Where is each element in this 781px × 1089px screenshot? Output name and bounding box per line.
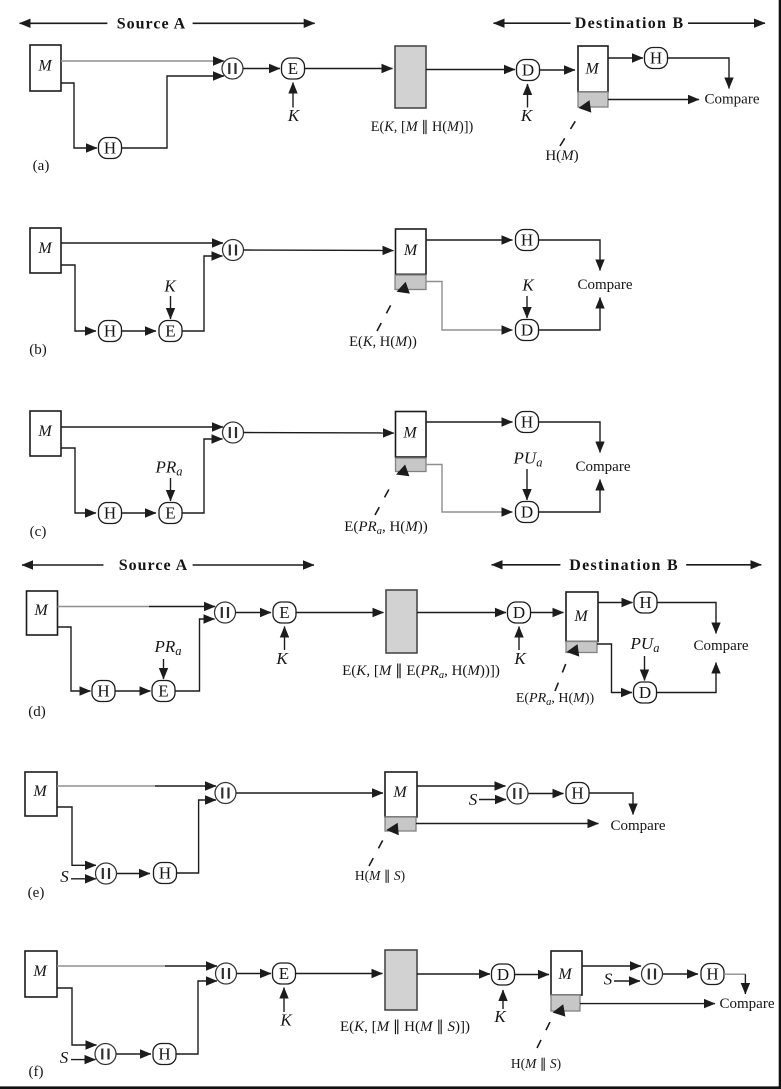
message box M source (e) bbox=[25, 772, 57, 816]
wire concat to E (a) bbox=[243, 68, 280, 70]
svg-text:M: M bbox=[37, 58, 53, 75]
concatenation node || (d) bbox=[215, 602, 236, 623]
hash strip of received block (f) bbox=[551, 995, 580, 1011]
wire concat dest to H (f) bbox=[663, 973, 699, 975]
svg-text:S: S bbox=[60, 867, 69, 886]
wire H to concat (a) bbox=[122, 76, 225, 148]
decrypt function D (a) bbox=[517, 60, 540, 81]
svg-text:E(PRa​, H(M)): E(PRa​, H(M)) bbox=[344, 519, 428, 537]
encrypt function E outer (d) bbox=[273, 602, 296, 623]
svg-text:H: H bbox=[104, 139, 116, 158]
svg-text:Destination B: Destination B bbox=[575, 15, 685, 32]
wire M to concat lower (f) bbox=[57, 988, 97, 1045]
wire D to received M (a) bbox=[539, 69, 575, 71]
svg-text:M: M bbox=[557, 966, 573, 983]
wire M to concat black part (f) bbox=[165, 965, 217, 967]
wire E to ciphertext block (a) bbox=[305, 68, 393, 70]
wire ciphertext to D (d) bbox=[417, 612, 506, 614]
wire M to concat top (b) bbox=[61, 242, 223, 244]
concatenation node || (a) bbox=[222, 58, 243, 79]
svg-text:K: K bbox=[493, 1007, 507, 1026]
wire K to E (a) bbox=[292, 83, 294, 108]
hash function H dest (c) bbox=[516, 412, 539, 433]
header arrow Source A (a) bbox=[20, 15, 315, 32]
hash function H dest (f) bbox=[701, 964, 724, 985]
svg-text:PRa: PRa bbox=[154, 458, 182, 479]
svg-text:H: H bbox=[159, 864, 171, 883]
svg-text:H: H bbox=[706, 965, 718, 984]
wire K to E (b) bbox=[170, 296, 172, 319]
concatenation node || (f) bbox=[216, 963, 237, 984]
svg-text:D: D bbox=[497, 965, 509, 984]
svg-text:E: E bbox=[288, 59, 298, 78]
decrypt function D (b) bbox=[516, 320, 539, 341]
header arrow Destination B (d) bbox=[492, 557, 762, 574]
svg-text:S: S bbox=[604, 970, 613, 989]
received message box M (a) bbox=[578, 46, 608, 92]
wire E to concat (c) bbox=[182, 439, 223, 513]
svg-text:D: D bbox=[639, 683, 651, 702]
svg-text:Source A: Source A bbox=[117, 15, 186, 32]
svg-text:Destination B: Destination B bbox=[569, 557, 679, 574]
wire K to D (f) bbox=[502, 990, 504, 1009]
received message box M (b) bbox=[396, 229, 427, 274]
leader E(K,H(M)) to strip (b) bbox=[377, 282, 410, 331]
concatenation node || (b) bbox=[223, 240, 244, 261]
wire D to compare (b) bbox=[539, 298, 601, 331]
svg-text:M: M bbox=[37, 240, 53, 257]
concatenation node || dest (f) bbox=[642, 964, 663, 985]
svg-text:(f): (f) bbox=[29, 1064, 44, 1080]
wire concat to received M (b) bbox=[244, 249, 394, 252]
wire concat dest to H (e) bbox=[529, 793, 564, 795]
wire E to ciphertext block (f) bbox=[296, 973, 383, 975]
hash function H (d) bbox=[92, 681, 115, 702]
wire H to E (c) bbox=[122, 512, 157, 514]
concatenation node || (e) bbox=[215, 783, 236, 804]
decrypt function D inner (d) bbox=[634, 682, 657, 703]
concatenation node || dest (e) bbox=[507, 783, 528, 804]
received message box M (d) bbox=[566, 592, 598, 642]
encrypt function E (b) bbox=[159, 321, 182, 342]
wire H to compare (e) bbox=[589, 793, 633, 815]
message box M source (a) bbox=[30, 45, 61, 91]
svg-text:H: H bbox=[158, 1045, 170, 1064]
wire H to E (d) bbox=[115, 690, 151, 692]
wire S to concat lower (f) bbox=[71, 1059, 96, 1061]
wire K to D (a) bbox=[527, 84, 529, 108]
hash function H (e) bbox=[154, 863, 177, 884]
svg-text:D: D bbox=[522, 61, 534, 80]
svg-text:Compare: Compare bbox=[720, 996, 775, 1012]
leader H(M||S) to strip (f) bbox=[537, 1004, 565, 1048]
hash function H (a) bbox=[99, 138, 122, 159]
wire M to concat black part (e) bbox=[155, 785, 216, 787]
wire strip to D (c) bbox=[426, 465, 513, 513]
wire E to ciphertext block (d) bbox=[296, 612, 384, 614]
message box M source (c) bbox=[30, 411, 61, 456]
header arrow Destination B (a) bbox=[494, 15, 766, 32]
svg-text:M: M bbox=[403, 242, 419, 259]
wire M to hash H dest (a) bbox=[608, 57, 643, 59]
wire concat to received M (e) bbox=[236, 792, 383, 794]
svg-text:E(K, H(M)): E(K, H(M)) bbox=[349, 334, 417, 350]
wire E to concat (b) bbox=[182, 256, 223, 331]
svg-text:H: H bbox=[521, 231, 533, 250]
hash function H (b) bbox=[99, 321, 122, 342]
svg-text:M: M bbox=[584, 61, 600, 78]
wire M to concat gray part (f) bbox=[57, 965, 165, 967]
svg-text:H: H bbox=[521, 413, 533, 432]
svg-text:H: H bbox=[639, 593, 651, 612]
concatenation node || lower (e) bbox=[96, 863, 117, 884]
svg-text:(a): (a) bbox=[33, 158, 50, 174]
decrypt function D outer (d) bbox=[508, 602, 531, 623]
leader E(PRa,H(M)) to strip (c) bbox=[375, 465, 409, 516]
svg-text:E(K, [M ∥ H(M ∥ S)]): E(K, [M ∥ H(M ∥ S)]) bbox=[340, 1019, 470, 1035]
svg-text:E(K, [M ∥ H(M)]): E(K, [M ∥ H(M)]) bbox=[371, 119, 474, 135]
svg-text:E: E bbox=[279, 603, 289, 622]
wire K to E (f) bbox=[283, 988, 285, 1013]
svg-text:E(PRa​, H(M)): E(PRa​, H(M)) bbox=[516, 691, 595, 708]
wire H to compare horizontal (f) bbox=[724, 973, 745, 975]
wire M to hash H dest (d) bbox=[598, 602, 633, 604]
wire H to E (b) bbox=[122, 330, 157, 332]
page border right bbox=[779, 0, 781, 1089]
svg-text:PUa: PUa bbox=[513, 449, 543, 470]
received message box M (c) bbox=[396, 412, 427, 458]
svg-text:H: H bbox=[650, 49, 662, 68]
ciphertext block (f) bbox=[385, 950, 417, 1010]
wire M to hash H (b) bbox=[61, 265, 96, 331]
received message box M (e) bbox=[385, 772, 417, 817]
svg-text:M: M bbox=[392, 784, 408, 801]
wire M to concat gray part (e) bbox=[57, 785, 155, 787]
wire D to received M (f) bbox=[515, 974, 550, 976]
wire strip to compare (a) bbox=[608, 99, 699, 101]
wire H to concat (f) bbox=[176, 981, 217, 1054]
wire M to concat gray part (d) bbox=[58, 606, 150, 608]
ciphertext block (d) bbox=[386, 590, 417, 653]
svg-text:E: E bbox=[165, 322, 175, 341]
svg-text:Compare: Compare bbox=[694, 638, 749, 654]
svg-text:M: M bbox=[32, 783, 48, 800]
svg-text:H(M): H(M) bbox=[545, 148, 578, 164]
page border bottom bbox=[0, 1086, 781, 1089]
svg-text:Compare: Compare bbox=[705, 92, 760, 108]
hash strip of received block (a) bbox=[578, 92, 608, 107]
svg-text:S: S bbox=[60, 1048, 69, 1067]
svg-text:PRa: PRa bbox=[153, 637, 181, 658]
svg-text:E(K, [M ∥ E(PRa​, H(M))]): E(K, [M ∥ E(PRa​, H(M))]) bbox=[342, 663, 500, 681]
svg-text:H(M ∥ S): H(M ∥ S) bbox=[511, 1056, 561, 1071]
wire E to concat (d) bbox=[175, 619, 215, 691]
wire M to concat black part (d) bbox=[149, 606, 215, 608]
svg-text:K: K bbox=[521, 276, 535, 295]
svg-text:E: E bbox=[165, 504, 175, 523]
wire K to D (d) bbox=[518, 627, 520, 651]
wire PRa to E (d) bbox=[163, 659, 165, 679]
wire D to compare (c) bbox=[539, 480, 601, 513]
svg-text:K: K bbox=[513, 649, 527, 668]
wire K to E (d) bbox=[284, 627, 286, 651]
svg-text:M: M bbox=[37, 423, 53, 440]
concatenation node || (c) bbox=[223, 422, 244, 443]
wire S to concat dest (f) bbox=[614, 980, 640, 982]
svg-text:K: K bbox=[279, 1011, 293, 1030]
wire M to concat dest (e) bbox=[417, 785, 506, 787]
svg-text:E: E bbox=[158, 682, 168, 701]
hash function H (f) bbox=[153, 1044, 176, 1065]
svg-text:Compare: Compare bbox=[578, 277, 633, 293]
received message box M (f) bbox=[551, 951, 582, 995]
wire M to concat lower (e) bbox=[57, 807, 96, 865]
wire ciphertext to D (a) bbox=[426, 69, 515, 71]
svg-text:H: H bbox=[104, 322, 116, 341]
svg-text:M: M bbox=[32, 963, 48, 980]
svg-text:K: K bbox=[520, 106, 534, 125]
hash function H dest (e) bbox=[566, 783, 589, 804]
svg-text:(e): (e) bbox=[28, 885, 45, 901]
wire M to hash H (a) bbox=[61, 83, 97, 148]
header arrow Source A (d) bbox=[22, 557, 314, 574]
wire S to concat dest (e) bbox=[479, 799, 506, 801]
wire M to concat dest (f) bbox=[582, 965, 641, 967]
wire S to concat lower (e) bbox=[71, 878, 96, 880]
svg-text:(b): (b) bbox=[29, 342, 47, 358]
hash function H dest (d) bbox=[634, 592, 657, 613]
wire concat to received M (c) bbox=[244, 432, 395, 435]
wire strip to D inner (d) bbox=[597, 644, 632, 693]
message box M source (d) bbox=[27, 591, 58, 635]
svg-text:PUa: PUa bbox=[630, 634, 660, 655]
wire concat lower to H (e) bbox=[117, 873, 150, 875]
hash strip of received block (e) bbox=[385, 817, 416, 831]
wire H to compare (b) bbox=[539, 240, 601, 271]
svg-text:M: M bbox=[33, 602, 49, 619]
wire ciphertext to D (f) bbox=[417, 973, 490, 975]
hash function H (c) bbox=[99, 503, 122, 524]
wire D to received M (d) bbox=[531, 612, 564, 614]
svg-text:H: H bbox=[571, 784, 583, 803]
ciphertext block (a) bbox=[395, 46, 426, 108]
wire PUa to D (d) bbox=[644, 656, 646, 681]
svg-text:S: S bbox=[469, 790, 478, 809]
message box M source (f) bbox=[25, 951, 57, 997]
wire H to compare (d) bbox=[657, 603, 716, 634]
leader H(M||S) to strip (e) bbox=[369, 823, 399, 866]
concatenation node || lower (f) bbox=[95, 1044, 116, 1065]
svg-text:H(M ∥ S): H(M ∥ S) bbox=[355, 868, 405, 883]
leader E(PRa,H(M)) to strip (d) bbox=[555, 644, 579, 691]
wire concat to E (f) bbox=[237, 973, 272, 975]
wire M to hash H (c) bbox=[61, 448, 96, 513]
svg-text:M: M bbox=[402, 425, 418, 442]
svg-text:Compare: Compare bbox=[576, 459, 631, 475]
wire H to compare vertical (f) bbox=[744, 974, 746, 994]
encrypt function E (f) bbox=[273, 963, 296, 984]
svg-text:M: M bbox=[573, 608, 589, 625]
svg-text:Source A: Source A bbox=[119, 557, 188, 574]
signature strip of received block (d) bbox=[566, 642, 597, 653]
wire strip to D (b) bbox=[426, 282, 513, 331]
svg-text:(c): (c) bbox=[30, 524, 47, 540]
hash function H dest (a) bbox=[645, 48, 668, 69]
svg-text:E: E bbox=[279, 964, 289, 983]
wire PRa to E (c) bbox=[170, 478, 172, 501]
svg-text:H: H bbox=[104, 504, 116, 523]
wire H to concat (e) bbox=[177, 800, 217, 873]
svg-text:D: D bbox=[521, 321, 533, 340]
svg-text:(d): (d) bbox=[28, 704, 46, 720]
wire PUa to D (c) bbox=[526, 469, 528, 500]
decrypt function D (f) bbox=[492, 964, 515, 985]
hash strip of received block (b) bbox=[395, 275, 426, 290]
wire M to hash H dest (b) bbox=[426, 239, 513, 241]
svg-text:Compare: Compare bbox=[611, 818, 666, 834]
wire M to hash H dest (c) bbox=[426, 421, 513, 423]
wire D inner to compare (d) bbox=[657, 663, 717, 693]
encrypt function E (c) bbox=[159, 503, 182, 524]
svg-text:K: K bbox=[287, 106, 301, 125]
wire concat to E outer (d) bbox=[236, 612, 272, 614]
svg-text:D: D bbox=[521, 503, 533, 522]
svg-text:K: K bbox=[163, 277, 177, 296]
wire strip to compare (f) bbox=[580, 1003, 715, 1005]
message box M source (b) bbox=[30, 228, 61, 273]
wire M to concat top (c) bbox=[61, 426, 223, 428]
wire M to hash H (d) bbox=[58, 627, 91, 691]
svg-text:K: K bbox=[275, 649, 289, 668]
svg-text:H: H bbox=[97, 682, 109, 701]
svg-text:D: D bbox=[513, 603, 525, 622]
wire concat lower to H (f) bbox=[117, 1053, 152, 1055]
wire M to concat top (a) bbox=[61, 60, 224, 62]
wire H to compare (a) bbox=[668, 58, 730, 89]
leader H(M) to strip (a) bbox=[560, 100, 591, 146]
encrypt function E (a) bbox=[282, 58, 305, 79]
hash function H dest (b) bbox=[516, 230, 539, 251]
wire strip to compare (e) bbox=[416, 823, 599, 825]
hash strip of received block (c) bbox=[396, 458, 427, 472]
encrypt function E signing (d) bbox=[152, 681, 175, 702]
wire H to compare (c) bbox=[539, 422, 601, 453]
wire K to D (b) bbox=[526, 296, 528, 318]
decrypt function D (c) bbox=[516, 502, 539, 523]
